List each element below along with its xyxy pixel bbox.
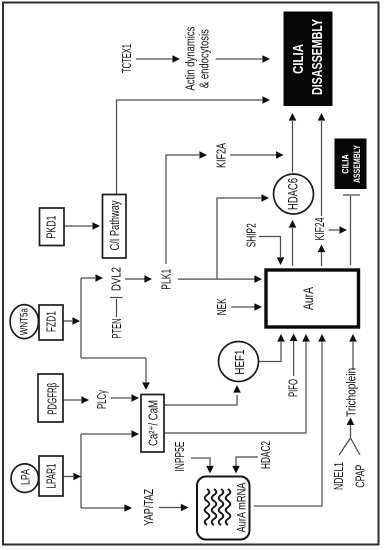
wire NEK to AurA: [232, 303, 263, 311]
svg-text:CILIA: CILIA: [341, 154, 352, 174]
node HDAC2: [259, 441, 273, 469]
node CILIA DISASSEMBLY: [284, 12, 333, 107]
svg-text:CPAP: CPAP: [354, 465, 368, 488]
node HDAC6: [274, 174, 314, 214]
node CILIA ASSEMBLY: [335, 139, 367, 190]
wire YAP/TAZ to AurA mRNA: [159, 504, 189, 512]
wire Trichoplein to AurA: [349, 334, 357, 370]
svg-text:FZD1: FZD1: [45, 311, 59, 332]
wire actin dynamics to CILIA DISASSEMBLY: [216, 55, 271, 63]
wire AurA mRNA to AurA: [254, 334, 326, 506]
wire Ca/CaM to AurA: [164, 334, 310, 433]
wire AurA to KIF24: [318, 245, 326, 267]
svg-text:YAP/TAZ: YAP/TAZ: [142, 489, 156, 526]
wire KIF24 to assembly inhibition line: [329, 226, 348, 234]
svg-text:CILIA: CILIA: [290, 44, 307, 74]
wire HEF1 to AurA: [259, 334, 285, 362]
receptor PDGFRb: [38, 374, 63, 422]
svg-text:LPA: LPA: [21, 469, 33, 485]
wire HDAC2 to AurA mRNA: [232, 457, 258, 474]
node PLCg: [95, 390, 109, 409]
wire KIF2A to disassembly arrow line: [230, 151, 284, 159]
node C/I Pathway: [103, 195, 127, 259]
ligand WNT5a: [10, 305, 38, 339]
svg-text:Ca²⁺/ CaM: Ca²⁺/ CaM: [147, 400, 161, 446]
wire KIF24 to CILIA DISASSEMBLY: [318, 113, 326, 216]
wire PDGFRb to PLCg: [63, 396, 89, 404]
wire Ca/CaM to HEF1: [164, 385, 241, 405]
wire HDAC6 to CILIA DISASSEMBLY: [289, 113, 297, 173]
svg-text:& endocytosis: & endocytosis: [198, 29, 212, 88]
wire PLK1 branch to HDAC6: [217, 194, 269, 279]
svg-text:TCTEX1: TCTEX1: [120, 44, 134, 73]
wire NDEL1 CPAP fork to Trichoplein: [339, 417, 360, 455]
node AurA mRNA: [197, 477, 250, 540]
svg-text:DISASSEMBLY: DISASSEMBLY: [309, 19, 326, 95]
wire C/I Pathway to CILIA DISASSEMBLY: [117, 96, 271, 194]
node Trichoplein: [345, 368, 359, 417]
svg-text:KIF24: KIF24: [313, 217, 327, 240]
wire TCTEX1 to actin dynamics: [136, 55, 180, 63]
receptor FZD1: [39, 305, 63, 340]
node PKD1: [40, 208, 65, 246]
node actin dynamics and endocytosis: [184, 27, 212, 91]
wire AurA to HDAC6: [289, 220, 297, 266]
wire PLK1 to KIF2A: [166, 151, 207, 264]
svg-text:AurA: AurA: [300, 287, 316, 310]
svg-text:C/I Pathway: C/I Pathway: [108, 200, 122, 251]
wire FZD1 junction: [63, 274, 150, 390]
node NDEL1: [332, 462, 346, 490]
node TCTEX1: [120, 44, 134, 73]
node AurA: [266, 270, 359, 327]
wire PLCg to Ca/CaM: [111, 394, 139, 402]
svg-text:PTEN: PTEN: [110, 319, 124, 339]
wire PKD1 to C/I Pathway: [63, 222, 100, 230]
node PIFO: [287, 379, 301, 397]
svg-text:SHIP2: SHIP2: [245, 223, 259, 247]
node HEF1: [219, 342, 259, 382]
svg-text:LPAR1: LPAR1: [45, 463, 59, 488]
node DVL2: [110, 267, 124, 291]
svg-text:PLCγ: PLCγ: [95, 390, 109, 409]
ligand LPA: [11, 464, 38, 493]
svg-text:NDEL1: NDEL1: [332, 462, 346, 490]
svg-text:ASSEMBLY: ASSEMBLY: [352, 145, 363, 183]
svg-text:KIF2A: KIF2A: [215, 143, 229, 168]
svg-text:DVL2: DVL2: [110, 267, 124, 291]
svg-text:PLK1: PLK1: [160, 269, 174, 290]
wire SHIP2 to AurA: [259, 237, 284, 266]
svg-text:AurA mRNA: AurA mRNA: [235, 483, 249, 533]
wire PLK1 to AurA: [178, 275, 262, 283]
node KIF24: [313, 217, 327, 240]
svg-text:NEK: NEK: [215, 298, 229, 315]
svg-text:INPP5E: INPP5E: [173, 442, 187, 472]
receptor LPAR1: [39, 456, 63, 496]
node NEK: [215, 298, 229, 315]
node PTEN: [110, 319, 124, 339]
node INPP5E: [173, 442, 187, 472]
wire AurA inhibits CILIA ASSEMBLY: [343, 195, 360, 265]
wire PTEN inhibits DVL2: [110, 298, 123, 318]
svg-text:Trichoplein: Trichoplein: [345, 368, 359, 417]
svg-text:PDGFRβ: PDGFRβ: [46, 383, 60, 415]
wire DVL2 to PLK1: [125, 275, 152, 283]
svg-text:PKD1: PKD1: [45, 215, 59, 238]
svg-text:HEF1: HEF1: [232, 350, 247, 375]
node PLK1: [160, 269, 174, 290]
node KIF2A: [215, 143, 229, 168]
node Ca2+/CaM: [141, 395, 164, 453]
wire LPAR1 junction: [63, 430, 139, 512]
node YAP/TAZ: [142, 489, 156, 526]
svg-text:WNT5a: WNT5a: [19, 307, 31, 335]
svg-text:HDAC6: HDAC6: [286, 178, 301, 210]
wire PIFO to AurA: [290, 333, 298, 376]
svg-text:Actin dynamics: Actin dynamics: [184, 27, 198, 91]
node CPAP: [354, 465, 368, 488]
wire INPP5E to AurA mRNA: [191, 458, 214, 474]
node SHIP2: [245, 223, 259, 247]
svg-text:PIFO: PIFO: [287, 379, 301, 397]
svg-text:HDAC2: HDAC2: [259, 441, 273, 469]
